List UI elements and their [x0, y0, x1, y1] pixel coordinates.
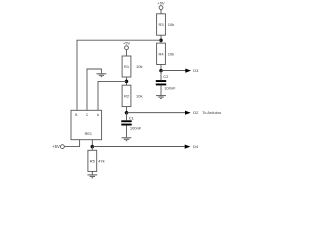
capacitor C1 [121, 120, 131, 125]
arrow D4 [185, 145, 191, 149]
power +5V P2 (feeds R1) [123, 41, 131, 50]
svg-text:10k: 10k [168, 51, 174, 56]
resistor R1 [122, 56, 131, 77]
resistor R2 [122, 85, 131, 106]
svg-text:R3: R3 [158, 22, 164, 27]
wire P2 to R1 [126, 50, 128, 56]
wire R3 to node B [160, 35, 162, 43]
power +5V P3 (bottom left, feeds switch) [52, 144, 64, 149]
wire node D2 to arrow D2 [127, 112, 186, 114]
node D3 junction [159, 69, 163, 73]
svg-text:D3: D3 [193, 68, 199, 73]
svg-text:D2: D2 [193, 110, 199, 115]
svg-text:10k: 10k [136, 93, 142, 98]
ground (below R5) [87, 175, 97, 178]
arrow D3 [185, 69, 191, 73]
wire node D4 to arrow D4 [92, 146, 185, 148]
wire R5 to ground [91, 171, 93, 174]
wire R2 to node D2 [126, 107, 128, 113]
svg-text:R5: R5 [90, 158, 96, 163]
node A junction (R1/R2) [125, 80, 129, 84]
wire P3 to encoder switch pin 1 [64, 140, 79, 147]
svg-text:+5V: +5V [157, 1, 165, 6]
svg-text:To Arduino: To Arduino [202, 110, 222, 115]
node D4 junction [91, 145, 95, 149]
resistor R5 [88, 150, 97, 171]
arrow D2 [185, 111, 191, 115]
svg-text:100nF: 100nF [130, 125, 142, 130]
svg-text:10k: 10k [168, 22, 174, 27]
wire encoder pin C to ground [87, 69, 101, 110]
svg-text:B: B [75, 113, 77, 117]
svg-text:R4: R4 [158, 51, 164, 56]
svg-text:D4: D4 [193, 144, 199, 149]
wire node B to encoder pin B [77, 40, 161, 110]
svg-text:10k: 10k [136, 64, 142, 69]
wire node A to encoder pin A [98, 81, 127, 110]
wire R1 to node A [126, 77, 128, 85]
ground (below C2) [156, 96, 166, 99]
svg-text:C2: C2 [163, 74, 169, 79]
capacitor C2 [156, 80, 166, 85]
wire P1 to R3 [160, 10, 162, 14]
svg-text:R1: R1 [124, 64, 130, 69]
ground (encoder common C) [97, 74, 107, 77]
wire R4 to node D3 [160, 65, 162, 71]
wire node D2 to C1 [126, 113, 128, 121]
resistor R3 [157, 14, 166, 35]
svg-text:R2: R2 [124, 93, 130, 98]
node D2 junction [125, 111, 129, 115]
svg-text:C1: C1 [129, 115, 135, 120]
resistor R4 [157, 43, 166, 64]
wire node D3 to C2 [160, 71, 162, 81]
svg-text:+5V: +5V [52, 144, 60, 149]
svg-text:+5V: +5V [123, 41, 131, 46]
power +5V P1 (top right, feeds R3) [157, 1, 165, 10]
wire encoder switch pin 2 to node D4 [91, 140, 93, 147]
rotary encoder RE1 [71, 110, 102, 139]
wire node D3 to arrow D3 [161, 70, 186, 72]
wire C2 to ground [160, 85, 162, 95]
wire C1 to ground [126, 126, 128, 138]
svg-text:47k: 47k [98, 158, 104, 163]
svg-text:RE1: RE1 [85, 132, 92, 136]
svg-text:100nF: 100nF [164, 86, 176, 91]
node B junction (R3/R4) [159, 38, 163, 42]
ground (below C1) [122, 138, 132, 141]
wire node D4 to R5 [91, 147, 93, 151]
